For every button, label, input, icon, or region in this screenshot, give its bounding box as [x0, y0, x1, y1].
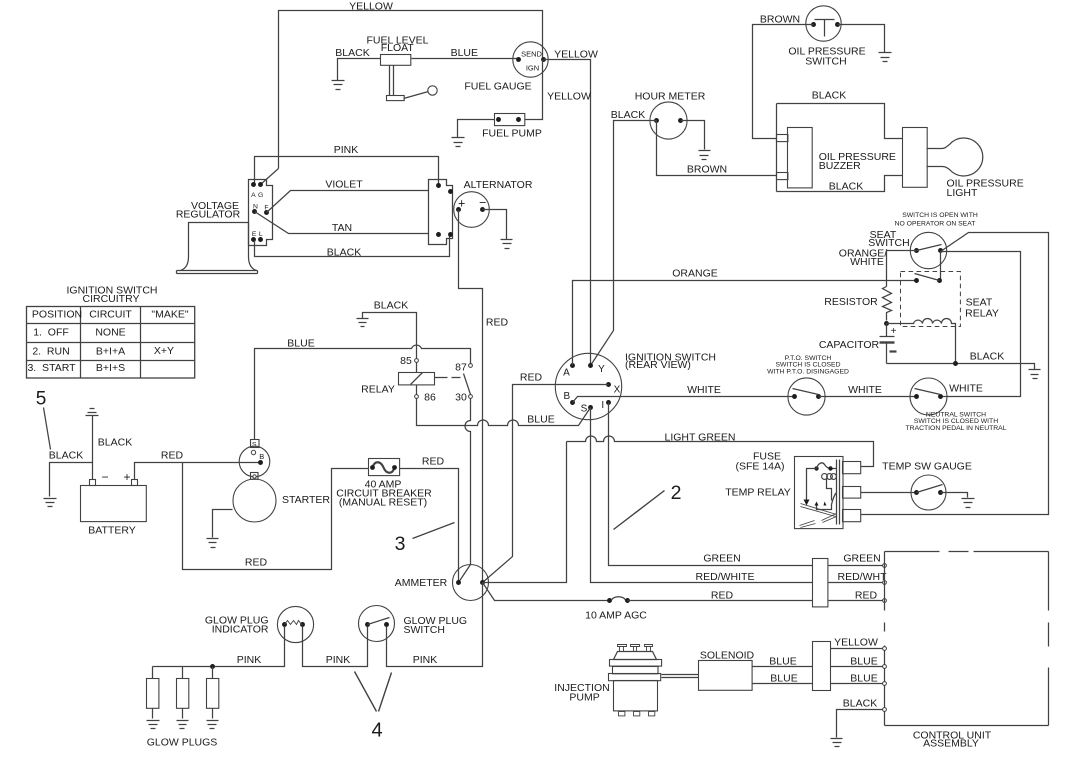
seat relay contact left — [914, 278, 919, 283]
svg-text:CIRCUIT: CIRCUIT — [89, 308, 132, 320]
temp relay tab 2 — [843, 487, 861, 499]
wire white pto to neutral — [819, 396, 917, 398]
svg-text:STARTER: STARTER — [282, 494, 330, 506]
svg-text:POSITION: POSITION — [32, 308, 82, 320]
neutral switch arm — [915, 389, 941, 395]
svg-text:BLACK: BLACK — [611, 109, 645, 121]
svg-text:5: 5 — [36, 388, 47, 409]
wire black seat relay to ground — [887, 364, 1035, 370]
temp relay lower contacts — [815, 502, 819, 506]
wire seat switch to relay contact — [940, 252, 942, 281]
oil pressure switch contact tee — [815, 20, 835, 37]
circuit breaker box — [369, 459, 400, 476]
wire light green to temp relay — [567, 436, 874, 467]
svg-text:WHITE: WHITE — [850, 256, 884, 268]
voltage regulator connector box — [249, 180, 273, 246]
svg-text:Y: Y — [598, 364, 605, 375]
ignition pin B — [570, 400, 575, 405]
wire orange-white to resistor — [887, 251, 917, 287]
alternator connector pin top — [436, 183, 441, 188]
wire ignition S to red-white row — [591, 408, 813, 583]
svg-text:FUEL PUMP: FUEL PUMP — [482, 128, 542, 140]
ground fuel pump — [452, 138, 465, 147]
svg-text:L: L — [259, 231, 263, 238]
svg-text:PINK: PINK — [237, 654, 262, 666]
svg-text:RED: RED — [486, 317, 509, 329]
glow switch pin left — [365, 622, 370, 627]
fuse 10 amp — [607, 598, 612, 603]
wire yellow gauge to fuel pump — [525, 60, 543, 120]
svg-text:B+I+S: B+I+S — [96, 362, 125, 374]
wire ammeter to red fuse row — [483, 583, 610, 601]
pto switch pin right — [816, 394, 821, 399]
svg-text:4: 4 — [371, 719, 382, 741]
svg-text:NONE: NONE — [95, 326, 125, 338]
ground temp gauge — [962, 499, 975, 508]
svg-text:2. RUN: 2. RUN — [32, 345, 69, 357]
resistor zigzag — [883, 287, 892, 321]
solenoid connector box — [813, 642, 831, 691]
temp relay left arm with arrow — [807, 469, 817, 500]
svg-text:HOUR METER: HOUR METER — [635, 90, 706, 102]
wire blue row 1 — [831, 666, 883, 668]
svg-text:BLUE: BLUE — [850, 655, 877, 667]
wire blue relay 86 to ignition S — [417, 399, 591, 426]
wire indicator to glow plugs — [153, 627, 285, 667]
wire red alternator to ammeter — [459, 210, 483, 583]
wire temp relay to gauge — [861, 492, 917, 494]
svg-text:FLOAT: FLOAT — [381, 42, 415, 54]
svg-text:87: 87 — [455, 362, 467, 374]
svg-text:PUMP: PUMP — [569, 691, 599, 703]
svg-text:G: G — [258, 192, 263, 199]
svg-text:VIOLET: VIOLET — [325, 178, 363, 190]
wire yellow top run — [279, 11, 543, 169]
seat relay dashed box — [901, 272, 961, 327]
injection pump flange — [610, 660, 662, 667]
svg-text:PINK: PINK — [334, 144, 359, 156]
starter neck — [251, 473, 259, 480]
ground solenoid black — [831, 739, 843, 747]
wire relay 30 to ammeter with hop — [459, 399, 471, 583]
alternator connector pin right bottom — [448, 232, 453, 237]
buzzer tab 2 — [777, 173, 788, 180]
relay switch arm — [464, 374, 471, 395]
svg-text:85: 85 — [400, 355, 412, 367]
pto switch circle — [788, 378, 825, 415]
svg-text:GLOW PLUGS: GLOW PLUGS — [147, 736, 218, 748]
svg-text:86: 86 — [424, 391, 436, 403]
control unit terminal blue 1 — [883, 665, 887, 669]
svg-text:RELAY: RELAY — [361, 384, 395, 396]
fuel gauge IGN pin — [541, 57, 546, 62]
svg-text:SWITCH: SWITCH — [805, 55, 846, 67]
temp gauge arm — [917, 485, 943, 493]
seat relay coil — [887, 319, 956, 364]
control unit terminal black — [883, 708, 887, 712]
pin E regulator — [251, 237, 256, 242]
ignition pin Y — [588, 363, 593, 368]
wire relay 85 to coil — [416, 363, 418, 373]
svg-text:GREEN: GREEN — [843, 552, 880, 564]
svg-text:RED: RED — [855, 589, 878, 601]
svg-text:−: − — [101, 470, 108, 484]
svg-text:YELLOW: YELLOW — [547, 91, 591, 103]
svg-text:(MANUAL RESET): (MANUAL RESET) — [339, 497, 427, 509]
control unit terminal green — [883, 564, 887, 568]
svg-text:SEND: SEND — [521, 49, 542, 58]
pin A regulator — [251, 182, 256, 187]
svg-text:BLUE: BLUE — [527, 413, 554, 425]
svg-text:LIGHT: LIGHT — [947, 187, 979, 199]
svg-text:PINK: PINK — [326, 654, 351, 666]
svg-text:SWITCH: SWITCH — [404, 624, 445, 636]
svg-text:BLUE: BLUE — [769, 655, 796, 667]
neutral switch circle — [910, 378, 947, 415]
svg-text:RED: RED — [161, 449, 184, 461]
ground relay — [357, 319, 369, 327]
neutral switch pin left — [914, 394, 919, 399]
battery minus terminal — [90, 480, 96, 486]
circuit breaker element — [373, 462, 395, 473]
alternator plus terminal — [456, 207, 461, 212]
svg-text:X+Y: X+Y — [154, 345, 174, 357]
svg-text:ASSEMBLY: ASSEMBLY — [923, 738, 979, 750]
temp gauge pin right — [938, 490, 943, 495]
svg-text:SOLENOID: SOLENOID — [700, 649, 755, 661]
fuel level float stem and arm — [390, 66, 394, 96]
fuel pump pin 1 — [496, 117, 501, 122]
svg-text:3: 3 — [395, 533, 406, 555]
node glow plug junction — [210, 664, 215, 669]
temp relay fuse element — [814, 466, 818, 470]
svg-text:S: S — [252, 441, 257, 448]
svg-text:BROWN: BROWN — [760, 13, 800, 25]
wire red battery to starter B — [135, 463, 261, 480]
wire violet F to alternator — [267, 191, 429, 213]
wire starter to ground — [213, 510, 233, 538]
ground fuel sender — [332, 81, 345, 90]
solenoid box — [699, 661, 753, 691]
relay coil box — [399, 373, 435, 385]
temp relay tab 3 — [843, 510, 861, 522]
buzzer left rail — [776, 104, 778, 192]
ground starter — [207, 539, 219, 548]
glow switch arm — [368, 618, 390, 625]
wire battery minus stem — [92, 416, 94, 480]
wire black row to ground — [837, 710, 883, 738]
temp relay box — [795, 457, 844, 529]
relay 85 terminal — [415, 359, 419, 363]
svg-text:(SFE 14A): (SFE 14A) — [735, 460, 784, 472]
svg-text:A: A — [251, 192, 256, 199]
svg-text:2: 2 — [671, 482, 682, 504]
svg-text:BUZZER: BUZZER — [819, 160, 861, 172]
svg-text:B: B — [259, 452, 264, 461]
svg-text:10 AMP AGC: 10 AMP AGC — [585, 609, 647, 621]
wire brown oil switch to buzzer — [753, 25, 814, 139]
injection pump caps — [618, 645, 627, 652]
ignition pin S — [588, 405, 593, 410]
pto switch arm — [793, 389, 819, 395]
pin N regulator — [252, 209, 257, 214]
svg-text:BLACK: BLACK — [374, 299, 408, 311]
hour meter pin left — [654, 118, 659, 123]
svg-text:ALTERNATOR: ALTERNATOR — [464, 179, 533, 191]
svg-text:BLUE: BLUE — [451, 47, 478, 59]
relay 30 terminal — [469, 395, 473, 399]
svg-text:BLACK: BLACK — [970, 350, 1004, 362]
seat relay contact right — [937, 278, 942, 283]
pin L regulator — [258, 237, 263, 242]
ground alternator — [501, 240, 513, 249]
wire black fuel sender — [338, 59, 381, 81]
wire fuel pump to ground — [458, 120, 495, 138]
fuel gauge SEND pin — [516, 57, 521, 62]
svg-text:(REAR VIEW): (REAR VIEW) — [625, 359, 691, 371]
svg-text:YELLOW: YELLOW — [834, 636, 878, 648]
wire red loop to circuit breaker — [183, 463, 369, 570]
hour meter pin right — [678, 118, 683, 123]
voltage regulator body — [177, 271, 258, 274]
wire white ignition B to pto — [573, 397, 795, 403]
wire ammeter to glow switch — [387, 583, 483, 667]
svg-text:BLACK: BLACK — [335, 47, 369, 59]
svg-text:CAPACITOR: CAPACITOR — [819, 339, 880, 351]
wire ignition I to green row — [609, 403, 813, 566]
svg-text:BLACK: BLACK — [843, 697, 877, 709]
svg-text:3. START: 3. START — [27, 362, 76, 374]
injection pump band — [609, 674, 661, 681]
svg-text:+: + — [891, 326, 897, 337]
seat switch arm — [917, 245, 942, 251]
glow indicator pin right — [300, 622, 305, 627]
pin F regulator — [264, 210, 269, 215]
relay 87 terminal — [469, 364, 473, 368]
battery box — [81, 486, 147, 522]
wire blue row 2 — [831, 683, 883, 685]
svg-text:CIRCUITRY: CIRCUITRY — [83, 293, 140, 305]
svg-text:YELLOW: YELLOW — [349, 1, 393, 13]
glow plug switch circle — [359, 606, 395, 642]
ignition pin I — [606, 400, 611, 405]
wire glow switch to indicator — [303, 627, 368, 667]
wire relay coil to 86 — [416, 385, 418, 395]
svg-text:B+I+A: B+I+A — [96, 345, 125, 357]
svg-text:1. OFF: 1. OFF — [33, 326, 69, 338]
wire black hour meter to ignition Y — [591, 121, 657, 366]
wire oil switch to ground — [838, 25, 885, 53]
svg-text:RED/WHITE: RED/WHITE — [696, 571, 755, 583]
wire seat switch to right rail — [861, 233, 1049, 515]
seat switch pin left — [914, 248, 919, 253]
solenoid shaft — [662, 675, 699, 678]
svg-text:+: + — [458, 196, 465, 210]
control unit terminal blue 2 — [883, 682, 887, 686]
wire red row to connector — [628, 600, 813, 602]
alternator connector pin right top — [448, 189, 453, 194]
temp relay coil — [822, 474, 828, 480]
wire blue float to gauge — [412, 58, 519, 60]
svg-text:X: X — [614, 385, 621, 396]
svg-text:TEMP RELAY: TEMP RELAY — [725, 486, 791, 498]
svg-text:RED/WHT: RED/WHT — [838, 571, 888, 583]
wire hour meter right to ground — [681, 121, 705, 150]
starter B pin — [258, 460, 263, 465]
wire red breaker to ammeter — [400, 469, 459, 583]
injection pump dome — [614, 652, 657, 660]
node resistor capacitor junction — [884, 321, 889, 326]
oil pressure switch pin right — [835, 22, 840, 27]
svg-text:REGULATOR: REGULATOR — [176, 209, 241, 221]
svg-text:AMMETER: AMMETER — [395, 577, 448, 589]
svg-text:E: E — [252, 231, 257, 238]
svg-text:RED: RED — [711, 589, 734, 601]
fuel level float body — [381, 55, 411, 66]
starter solenoid upper pin — [251, 450, 255, 454]
wire red ignition X to ammeter — [483, 385, 609, 583]
svg-text:WHITE: WHITE — [687, 384, 721, 396]
svg-text:+: + — [123, 470, 130, 484]
glow plug 1 — [152, 667, 154, 679]
svg-text:BLACK: BLACK — [98, 436, 132, 448]
temp sw gauge circle — [911, 475, 946, 510]
oil pressure switch pin left — [811, 22, 816, 27]
svg-text:"MAKE": "MAKE" — [151, 308, 188, 320]
fuel pump box — [495, 114, 525, 126]
capacitor symbol — [880, 324, 895, 337]
wire alternator minus to ground — [483, 210, 507, 240]
injection pump lower body — [614, 681, 658, 711]
wire blue solenoid 1 — [753, 666, 813, 668]
wire red-white row right — [829, 582, 883, 584]
hour meter circle — [650, 102, 687, 139]
temp relay spring 2 — [822, 514, 837, 523]
svg-text:RESISTOR: RESISTOR — [824, 296, 878, 308]
temp gauge pin left — [914, 490, 919, 495]
svg-text:−: − — [479, 196, 486, 210]
glow switch pin right — [384, 622, 389, 627]
svg-text:WHITE: WHITE — [949, 382, 983, 394]
svg-text:B: B — [563, 391, 570, 402]
alternator connector pin bottom — [436, 232, 441, 237]
injection pump feet — [619, 712, 625, 716]
wire black battery minus to ground — [50, 463, 93, 497]
callout 4 — [355, 672, 392, 712]
ground seat relay — [1029, 370, 1041, 379]
svg-text:PINK: PINK — [413, 654, 438, 666]
ignition switch circle — [555, 353, 621, 419]
ammeter pin right — [480, 580, 485, 585]
oil pressure light bulb — [927, 138, 983, 176]
seat switch circle — [910, 232, 946, 268]
glow indicator filament — [285, 621, 303, 625]
ground battery left — [44, 499, 57, 507]
svg-text:BROWN: BROWN — [687, 163, 727, 175]
svg-text:TAN: TAN — [332, 222, 352, 234]
temp relay strip — [837, 460, 840, 525]
svg-text:FUEL GAUGE: FUEL GAUGE — [464, 81, 531, 93]
wire yellow diagonal to regulator G pin — [261, 169, 279, 185]
fuel gauge circle — [513, 42, 548, 77]
ground glow plug 2 — [177, 721, 189, 729]
ignition pin A — [570, 363, 575, 368]
svg-text:INDICATOR: INDICATOR — [212, 623, 269, 635]
wire seat switch white down — [941, 252, 1021, 397]
svg-text:BATTERY: BATTERY — [88, 524, 135, 536]
wire green row right — [829, 565, 883, 567]
glow indicator pin left — [282, 622, 287, 627]
svg-text:WITH P.T.O. DISINGAGED: WITH P.T.O. DISINGAGED — [767, 368, 849, 375]
ground glow plug 1 — [147, 721, 160, 729]
svg-text:GREEN: GREEN — [703, 552, 740, 564]
ground glow plug 3 — [207, 721, 219, 729]
glow plug indicator circle — [277, 606, 313, 642]
svg-text:SWITCH IS OPEN WITH: SWITCH IS OPEN WITH — [902, 212, 978, 219]
wire temp gauge to ground — [941, 493, 968, 498]
glow plug 3 — [212, 667, 214, 679]
temp relay spring 1 — [801, 504, 837, 517]
wire pink regulator to alternator — [255, 157, 439, 184]
svg-text:BLACK: BLACK — [812, 89, 846, 101]
starter motor circle — [233, 479, 276, 522]
battery plus terminal — [132, 480, 138, 486]
temp relay spring 3 — [800, 521, 816, 528]
svg-text:RED: RED — [520, 371, 543, 383]
svg-text:BLACK: BLACK — [49, 449, 83, 461]
wire yellow gauge to ignition Y — [544, 60, 591, 366]
svg-text:RED: RED — [245, 556, 268, 568]
wire yellow row — [831, 648, 883, 650]
starter solenoid circle — [239, 446, 270, 477]
svg-text:IGN: IGN — [526, 63, 539, 72]
ignition table grid — [27, 307, 195, 379]
ground battery top inverted — [86, 409, 99, 416]
neutral switch pin right — [938, 394, 943, 399]
wire ammeter to light green riser — [483, 442, 567, 583]
svg-text:WHITE: WHITE — [848, 384, 882, 396]
wire orange ignition A to seat relay — [573, 281, 917, 366]
pto switch pin left — [792, 394, 797, 399]
ammeter pin left — [456, 580, 461, 585]
wire brown hour meter to buzzer — [657, 121, 777, 176]
seat switch pin right — [938, 248, 943, 253]
buzzer tab 1 — [777, 135, 788, 142]
svg-text:RED: RED — [422, 455, 445, 467]
wire red row right — [829, 600, 883, 602]
wire black ground to relay 85 — [363, 313, 417, 359]
alternator circle — [454, 192, 490, 228]
relay 86 terminal — [415, 395, 419, 399]
alternator minus terminal — [480, 207, 485, 212]
svg-text:30: 30 — [455, 392, 467, 404]
svg-text:TEMP SW GAUGE: TEMP SW GAUGE — [882, 460, 972, 472]
svg-text:RELAY: RELAY — [965, 307, 999, 319]
wire tan N to alternator — [255, 212, 429, 234]
svg-text:I: I — [601, 400, 604, 411]
svg-text:BLUE: BLUE — [770, 672, 797, 684]
four pin connector box — [813, 559, 828, 607]
wire black buzzer bottom — [777, 176, 903, 192]
svg-text:BLUE: BLUE — [850, 672, 877, 684]
pin G regulator — [258, 182, 263, 187]
control unit terminal yellow — [883, 647, 887, 651]
svg-text:N: N — [253, 204, 258, 211]
svg-text:NO OPERATOR ON SEAT: NO OPERATOR ON SEAT — [895, 221, 976, 228]
injection pump upper body — [613, 667, 659, 674]
oil pressure switch circle — [806, 6, 841, 41]
oil pressure light connector — [903, 128, 928, 188]
